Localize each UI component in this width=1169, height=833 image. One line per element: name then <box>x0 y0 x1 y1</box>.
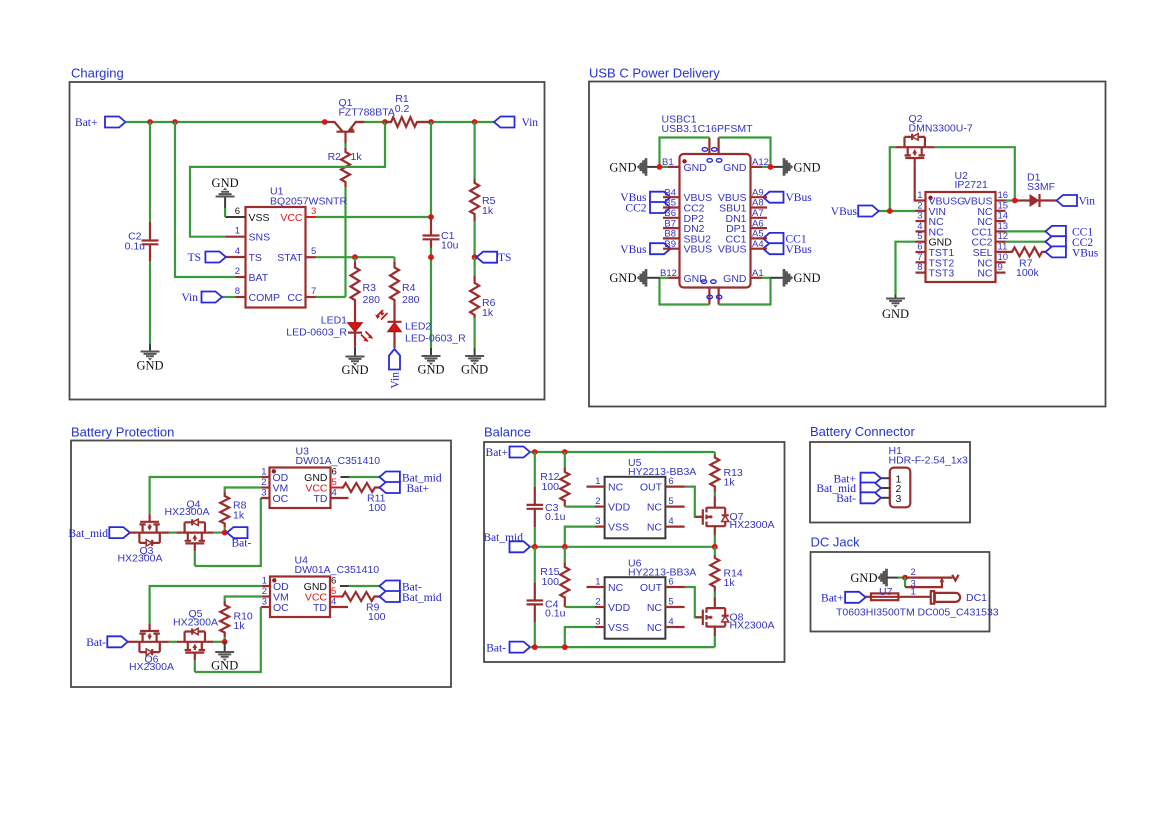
transistor Q8 HX2300A <box>695 597 774 636</box>
resistor R10 1k <box>220 601 253 642</box>
svg-text:10u: 10u <box>441 240 459 252</box>
node junction emitter/R1/sense <box>382 119 388 125</box>
wire VCC riser <box>430 122 432 217</box>
node junction TS <box>472 254 478 260</box>
header H1 HDR-F-2.54_1x3 <box>889 445 969 507</box>
section DC Jack: border box <box>811 552 990 632</box>
IC U1 BQ2057WSNTR <box>246 186 348 308</box>
svg-text:6: 6 <box>332 467 337 478</box>
node junction Bat-/VSS2 <box>562 644 568 650</box>
svg-text:OUT: OUT <box>640 582 663 594</box>
svg-text:100: 100 <box>368 611 386 623</box>
pin 2 VM (U4) <box>262 586 289 604</box>
resistor R9 100 <box>341 592 386 623</box>
svg-text:DC Jack: DC Jack <box>811 535 861 550</box>
net flag Bat+ (H1) <box>834 473 881 486</box>
svg-text:2: 2 <box>261 477 266 488</box>
capacitor C2 0.1u <box>125 222 159 344</box>
svg-text:3: 3 <box>261 488 266 499</box>
net flag CC1 (U2) <box>1045 226 1093 239</box>
svg-text:DC005_C431533: DC005_C431533 <box>918 607 999 619</box>
pin B5 CC2 <box>663 198 705 215</box>
wire CC1 pin13 <box>1006 230 1046 232</box>
net flag Bat_mid (H1) <box>816 483 881 496</box>
pin 8 TST3 <box>916 262 955 280</box>
pin B7 DN2 <box>663 218 705 235</box>
svg-text:HX2300A: HX2300A <box>118 553 163 565</box>
pin1 marker U4 <box>272 578 276 582</box>
pin 6 GND (U4) <box>304 576 349 594</box>
wire STAT net <box>316 256 395 258</box>
svg-text:6: 6 <box>668 577 673 588</box>
svg-text:1: 1 <box>595 577 600 588</box>
svg-text:TST3: TST3 <box>929 268 955 280</box>
svg-text:4: 4 <box>668 617 673 628</box>
svg-text:GND: GND <box>609 271 636 285</box>
svg-text:U7: U7 <box>879 586 893 598</box>
wire Q2 drain to VBUS/D1 <box>935 147 1015 200</box>
pin A5 CC1 <box>725 229 767 246</box>
svg-text:3: 3 <box>262 597 267 608</box>
pin1 marker U2 <box>928 196 932 200</box>
svg-text:280: 280 <box>363 294 381 306</box>
resistor R7 100k <box>996 247 1046 279</box>
svg-text:3: 3 <box>595 617 600 628</box>
IC U3 DW01A_C351410 <box>270 446 381 508</box>
node junction R5/Vin <box>472 119 478 125</box>
wire VM1 net <box>225 488 262 493</box>
svg-text:HX2300A: HX2300A <box>730 519 775 531</box>
svg-text:GND: GND <box>461 363 488 377</box>
svg-text:GND: GND <box>723 273 747 285</box>
svg-text:NC: NC <box>647 602 663 614</box>
wire sense net (emitter to SNS) <box>190 122 385 237</box>
svg-text:Vin: Vin <box>522 117 539 129</box>
pin 4 TS <box>226 246 262 264</box>
resistor R12 100 <box>540 452 569 507</box>
resistor R14 1k <box>710 547 743 597</box>
svg-text:280: 280 <box>402 294 420 306</box>
wire Bat- row <box>530 646 715 648</box>
ground port B1 <box>609 158 646 176</box>
net flag VBus (U2) <box>831 206 879 219</box>
pin 5 NC (U5) <box>647 496 685 513</box>
wire Bat_mid row <box>530 546 715 548</box>
svg-text:6: 6 <box>235 206 240 217</box>
node junction VCC/C1 <box>428 214 434 220</box>
transistor Q3 HX2300A <box>118 514 163 564</box>
pin 1 (H1) <box>881 473 901 485</box>
svg-text:TS: TS <box>188 252 201 264</box>
wire OD1 net <box>150 477 262 514</box>
wire GND6 to Bat- (U4) <box>349 585 380 587</box>
svg-text:VBus: VBus <box>786 244 813 256</box>
svg-text:OC: OC <box>273 602 289 614</box>
pin 16 VBUS <box>964 190 1008 208</box>
svg-text:6: 6 <box>668 476 673 487</box>
wire OUT2 to Q8 gate <box>685 587 703 617</box>
svg-text:HX2300A: HX2300A <box>129 661 174 673</box>
svg-text:TS: TS <box>498 252 511 264</box>
section Charging: border box <box>70 82 545 400</box>
svg-text:2: 2 <box>595 496 600 507</box>
pin 7 TST2 <box>916 252 955 270</box>
pin 1 OD (U3) <box>261 467 288 485</box>
ground port DC jack <box>850 569 886 587</box>
transistor Q7 HX2300A <box>695 497 774 536</box>
net flag CC1 A5 <box>763 233 807 246</box>
ground U2 <box>882 295 909 322</box>
svg-text:HX2300A: HX2300A <box>173 616 218 628</box>
svg-text:Bat-: Bat- <box>232 538 252 550</box>
pin 10 NC <box>977 252 1008 270</box>
net flag TS (right) <box>477 252 512 265</box>
svg-text:GND: GND <box>341 363 368 377</box>
svg-text:OUT: OUT <box>640 482 663 494</box>
svg-text:Battery Protection: Battery Protection <box>71 425 174 440</box>
mount ellipses top <box>702 148 722 163</box>
shell pins bottom <box>709 288 718 305</box>
pin B6 DP2 <box>663 208 704 225</box>
pin 6 GND (U3) <box>304 467 349 485</box>
svg-text:VBus: VBus <box>786 192 813 204</box>
svg-text:DW01A_C351410: DW01A_C351410 <box>296 455 381 467</box>
section Battery Connector: border box <box>810 442 970 523</box>
net flag Vin (below LED2, pointing up) <box>389 349 402 389</box>
svg-text:Bat_mid: Bat_mid <box>68 528 108 540</box>
wire BAT riser <box>175 122 236 277</box>
svg-text:LED-0603_R: LED-0603_R <box>286 327 347 339</box>
svg-text:1: 1 <box>261 467 266 478</box>
net flag TS (left) <box>188 252 226 265</box>
svg-text:1k: 1k <box>724 577 736 589</box>
svg-text:TS: TS <box>249 252 262 264</box>
wire R5 riser <box>474 122 476 179</box>
svg-text:5: 5 <box>668 496 673 507</box>
wire Q7 source <box>714 536 716 547</box>
wire Q2 gate to pin1 <box>915 166 926 201</box>
pin 11 SEL <box>973 242 1008 260</box>
wire CC2 pin12 <box>1006 241 1046 243</box>
wire pin16 to D1 node <box>1006 199 1015 201</box>
section USB C Power Delivery: border box <box>589 82 1106 407</box>
pin 2 VDD (U5) <box>595 496 631 513</box>
svg-text:100: 100 <box>369 502 387 514</box>
svg-text:1k: 1k <box>724 477 736 489</box>
capacitor C4 0.1u <box>527 547 566 647</box>
svg-text:5: 5 <box>332 477 337 488</box>
svg-text:Bat+: Bat+ <box>821 592 843 604</box>
wire VBus to VIN pin2 <box>879 210 916 212</box>
svg-text:VDD: VDD <box>608 602 631 614</box>
wire VBus to Q2 source <box>890 147 895 211</box>
svg-text:1: 1 <box>262 576 267 587</box>
LED1 LED-0603_R <box>286 315 373 347</box>
pin A12 GND <box>723 157 784 174</box>
wire Q8 source <box>714 636 716 647</box>
pin 5 NC (U6) <box>647 597 685 615</box>
svg-text:BQ2057WSNTR: BQ2057WSNTR <box>270 196 347 208</box>
connector USBC1 USB3.1C16PFSMT body <box>662 114 754 288</box>
ground R6 <box>461 348 488 377</box>
svg-text:HDR-F-2.54_1x3: HDR-F-2.54_1x3 <box>889 454 969 466</box>
pin3 stub OC1 <box>261 497 270 499</box>
svg-text:0.1u: 0.1u <box>545 608 566 620</box>
svg-text:GND: GND <box>211 659 238 673</box>
wire VM2 net <box>225 597 262 602</box>
svg-text:2: 2 <box>262 586 267 597</box>
svg-text:Bat-: Bat- <box>836 493 856 505</box>
transistor Q5 HX2300A <box>173 608 218 660</box>
svg-text:NC: NC <box>608 482 624 494</box>
svg-text:VBus: VBus <box>620 244 647 256</box>
net flag Bat+ (U3 right) <box>379 482 429 495</box>
section Battery Protection: border box <box>71 441 451 688</box>
svg-text:NC: NC <box>647 622 663 634</box>
svg-text:3: 3 <box>896 493 902 505</box>
net flag Bat+ (DC jack) <box>821 592 866 605</box>
node junction B1 <box>657 164 663 170</box>
node junction A12 <box>768 164 774 170</box>
pin A1 GND <box>723 268 784 285</box>
svg-text:5: 5 <box>331 586 336 597</box>
svg-text:A12: A12 <box>752 157 769 168</box>
pin 1 NC (U5) <box>587 476 624 494</box>
svg-text:HY2213-BB3A: HY2213-BB3A <box>628 466 696 478</box>
svg-text:4: 4 <box>668 516 673 527</box>
svg-text:4: 4 <box>331 597 336 608</box>
fuse U7 T0603HI3500TM <box>836 586 931 619</box>
svg-text:Bat-: Bat- <box>86 637 106 649</box>
node junction Bat_mid/VSS1 <box>562 544 568 550</box>
node junction collector <box>322 119 328 125</box>
svg-text:Bat_mid: Bat_mid <box>483 532 523 544</box>
capacitor C1 10u <box>423 217 459 348</box>
pin B9 VBUS <box>663 239 712 256</box>
pin 6 VSS <box>225 206 269 224</box>
svg-text:S3MF: S3MF <box>1027 181 1055 193</box>
svg-text:HY2213-BB3A: HY2213-BB3A <box>628 566 696 578</box>
svg-text:8: 8 <box>235 286 240 297</box>
pin A4 VBUS <box>718 239 767 256</box>
node junction Bat+/R12 <box>562 449 568 455</box>
pin A9 VBUS <box>718 187 767 204</box>
wire VSS1 net <box>565 527 595 547</box>
ground port A1 <box>784 269 821 287</box>
svg-text:GND: GND <box>684 273 708 285</box>
svg-text:COMP: COMP <box>249 292 281 304</box>
svg-text:A4: A4 <box>752 239 764 250</box>
svg-text:CC: CC <box>287 292 303 304</box>
wire GND6 to Bat_mid <box>349 476 379 478</box>
svg-text:DC1: DC1 <box>966 592 987 604</box>
pin 2 (H1) <box>881 483 901 495</box>
wire VSS2 net <box>565 627 595 647</box>
svg-text:R3: R3 <box>363 282 377 294</box>
pin 3 OC (U4) <box>261 597 289 615</box>
IC U2 IP2721 <box>926 170 996 282</box>
pin B8 SBU2 <box>663 229 711 246</box>
svg-text:2: 2 <box>595 597 600 608</box>
pin1 marker USBC1 <box>682 159 686 163</box>
wire Bat+ row <box>530 451 715 453</box>
pin B4 VBUS <box>663 187 712 204</box>
pin 6 OUT (U5) <box>640 476 685 494</box>
svg-text:4: 4 <box>235 246 240 257</box>
svg-text:R2: R2 <box>328 151 342 163</box>
svg-text:NC: NC <box>647 522 663 534</box>
pin 2 VDD (U6) <box>595 597 631 615</box>
wire GND to pin2 node <box>887 577 906 579</box>
wire OC1 net <box>195 498 261 566</box>
ground port B12 <box>609 269 646 287</box>
svg-text:GND: GND <box>684 162 708 174</box>
node junction R8/Bat- <box>222 530 228 536</box>
wire VDD2 net <box>565 606 595 608</box>
wire CC to R2 <box>316 296 346 298</box>
svg-text:VSS: VSS <box>249 212 270 224</box>
net flag Bat- (H1) <box>836 492 881 505</box>
svg-text:Bat+: Bat+ <box>407 483 429 495</box>
svg-text:TD: TD <box>313 602 327 614</box>
pin 1 NC (U6) <box>587 577 624 595</box>
svg-text:B1: B1 <box>662 157 674 168</box>
mount ellipses bottom <box>701 280 722 299</box>
capacitor C3 0.1u <box>527 452 566 547</box>
svg-text:1k: 1k <box>482 307 494 319</box>
svg-text:GND: GND <box>794 160 821 174</box>
svg-text:Vin: Vin <box>1079 196 1096 208</box>
svg-text:GND: GND <box>850 571 877 585</box>
wire VCC net <box>316 216 432 218</box>
svg-text:A1: A1 <box>752 268 764 279</box>
ground port A12 <box>784 158 821 176</box>
svg-text:Battery Connector: Battery Connector <box>810 424 915 439</box>
svg-text:NC: NC <box>608 582 624 594</box>
resistor R3 280 <box>351 257 381 323</box>
svg-text:GND: GND <box>609 160 636 174</box>
node junction R1/C1 <box>428 119 434 125</box>
svg-text:NC: NC <box>977 268 993 280</box>
svg-text:GND: GND <box>417 363 444 377</box>
resistor R6 1k <box>470 257 495 348</box>
pin 4 TD (U4) <box>313 597 348 615</box>
diode D1 S3MF <box>1015 172 1057 208</box>
net flag VBus A4 <box>763 243 812 256</box>
node junction Bat-/C4 <box>532 644 538 650</box>
svg-text:USB3.1C16PFSMT: USB3.1C16PFSMT <box>662 123 754 135</box>
LED2 LED-0603_R <box>375 310 466 348</box>
connector DC1 DC005_C431533 barrel <box>918 591 999 618</box>
svg-text:VBUS: VBUS <box>718 244 747 256</box>
svg-text:OC: OC <box>273 493 289 505</box>
svg-text:GND: GND <box>794 271 821 285</box>
transistor Q4 HX2300A <box>165 499 210 552</box>
net flag VBus B9 <box>620 243 670 256</box>
node junction STAT/R3 <box>352 254 358 260</box>
pin 3 switch contact (DC1) <box>905 577 944 590</box>
svg-text:T0603HI3500TM: T0603HI3500TM <box>836 607 915 619</box>
net flag Bat_mid (U3 right) <box>379 472 441 485</box>
svg-text:STAT: STAT <box>277 252 303 264</box>
pin 2 VIN <box>916 200 947 218</box>
svg-text:LED1: LED1 <box>321 315 347 327</box>
pin1 marker U3 <box>272 469 276 473</box>
net flag Bat- (mid) <box>227 527 251 549</box>
svg-text:R4: R4 <box>402 282 416 294</box>
wire Q6-Q5 <box>162 641 183 643</box>
svg-text:VBus: VBus <box>1072 247 1099 259</box>
net flag VBus B4 <box>620 192 670 205</box>
svg-text:2: 2 <box>235 266 240 277</box>
svg-text:2: 2 <box>911 567 916 578</box>
pin 14 NC <box>977 211 1008 229</box>
wire emitter to R1 <box>385 121 391 123</box>
resistor R15 100 <box>540 547 569 607</box>
wire Q4 to Bat- node <box>207 531 214 533</box>
pin 5 VCC (U3) <box>305 477 341 495</box>
svg-text:Bat+: Bat+ <box>486 447 508 459</box>
svg-text:1: 1 <box>911 586 916 597</box>
section Balance: border box <box>484 442 785 662</box>
wire OD2 net <box>150 586 262 623</box>
IC U4 DW01A_C351410 <box>270 555 379 617</box>
net flag VBus (SEL) <box>1045 246 1098 259</box>
wire VDD1 net <box>565 506 595 508</box>
node junction Bat_mid/Q7 <box>712 544 718 550</box>
node junction Bat+/BAT <box>172 119 178 125</box>
net flag Bat_mid (balance) <box>483 532 530 552</box>
svg-text:GND: GND <box>882 307 909 321</box>
resistor R13 1k <box>710 452 743 497</box>
node junction C1 wire <box>428 254 434 260</box>
pin 4 NC <box>916 221 945 239</box>
pin 3 (H1) <box>881 493 901 505</box>
svg-text:0.1u: 0.1u <box>125 241 146 253</box>
node junction Bat+/C2 <box>147 119 153 125</box>
svg-text:GND: GND <box>212 176 239 190</box>
shell pins top <box>709 138 718 155</box>
svg-text:0.2: 0.2 <box>395 103 410 115</box>
net flag VBus A9 <box>763 192 812 205</box>
wire OC2 net <box>195 607 261 672</box>
svg-text:100: 100 <box>541 576 559 588</box>
svg-text:Charging: Charging <box>71 66 124 81</box>
pin 2 BAT <box>235 266 269 284</box>
svg-text:Vin: Vin <box>181 292 198 304</box>
svg-text:IP2721: IP2721 <box>955 179 988 191</box>
net flag Bat- (balance) <box>486 642 530 655</box>
svg-text:3: 3 <box>595 516 600 527</box>
svg-text:DW01A_C351410: DW01A_C351410 <box>295 564 380 576</box>
svg-text:1: 1 <box>595 476 600 487</box>
svg-text:LED-0603_R: LED-0603_R <box>405 333 466 345</box>
svg-text:Bat+: Bat+ <box>75 117 97 129</box>
transistor Q2 DMN3300U-7 <box>895 113 973 166</box>
pin 3 VCC <box>280 206 316 224</box>
wire R5 to TS node <box>474 221 476 257</box>
ground protection <box>211 642 238 673</box>
ground LED1 <box>341 347 368 377</box>
resistor R11 100 <box>341 483 386 514</box>
pin 1 OD (U4) <box>262 576 289 594</box>
pin 4 NC (U5) <box>647 516 685 534</box>
svg-text:USB C Power Delivery: USB C Power Delivery <box>589 66 720 81</box>
wire Q5 to GND node <box>207 641 214 643</box>
node junction R10/GND <box>222 639 228 645</box>
pin 7 CC <box>287 286 316 304</box>
svg-text:1: 1 <box>235 226 240 237</box>
